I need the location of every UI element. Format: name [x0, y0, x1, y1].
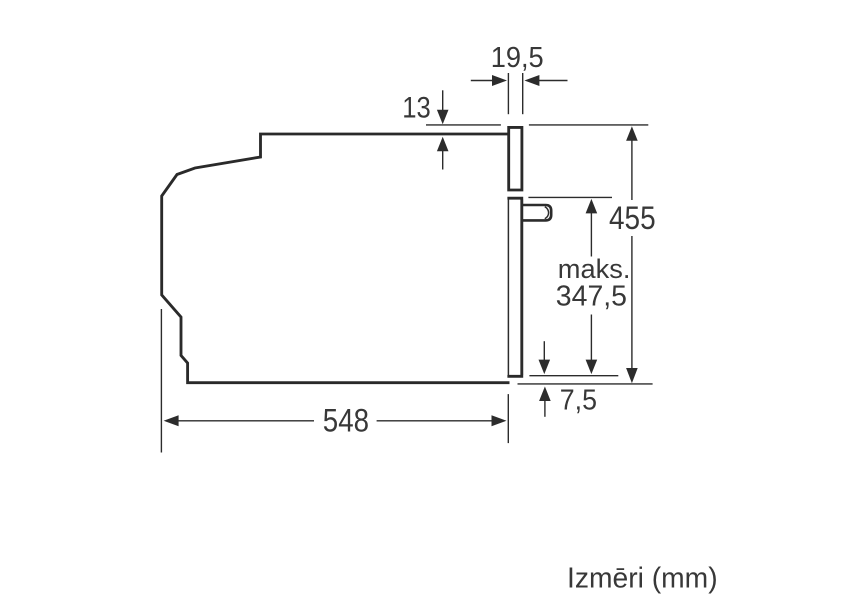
- extension line at panel top (right of panel, top ref of 455): [529, 124, 648, 126]
- dim maks: top extension line (door top level): [528, 196, 612, 198]
- door right edge: [520, 200, 523, 376]
- oven body outline: [162, 134, 510, 383]
- door top edge: [507, 197, 523, 200]
- svg-text:7,5: 7,5: [560, 385, 597, 417]
- dim 19,5: left extension line: [507, 73, 509, 114]
- svg-text:548: 548: [323, 402, 369, 438]
- dim 548: left arrow: [164, 415, 179, 426]
- dim 455: top (up) arrow: [626, 126, 638, 141]
- door bottom edge: [507, 375, 523, 378]
- control panel (front upper section): [509, 127, 522, 190]
- extension line at panel top (left of panel): [426, 124, 501, 126]
- svg-text:455: 455: [609, 200, 656, 236]
- dim 13: lower (up) arrow: [442, 150, 444, 170]
- dim 548: left extension line: [160, 309, 162, 453]
- svg-text:347,5: 347,5: [556, 281, 627, 313]
- dim 455: bottom (down) arrow: [626, 368, 638, 383]
- dim 455: line below label: [631, 236, 633, 369]
- dim 548: right extension line: [507, 394, 509, 443]
- svg-text:19,5: 19,5: [491, 42, 544, 74]
- svg-text:Izmēri (mm): Izmēri (mm): [567, 563, 718, 595]
- svg-text:maks.: maks.: [558, 254, 631, 284]
- dim 455: bottom extension line: [518, 383, 653, 385]
- dim 19,5: right extension line: [522, 73, 524, 114]
- svg-text:13: 13: [402, 92, 431, 125]
- door left (thin) edge: [507, 200, 509, 376]
- dim 19,5: right arrow: [538, 80, 568, 82]
- dim maks: top (up) arrow: [586, 199, 598, 214]
- door handle: [522, 205, 551, 220]
- dim 7,5: upper (down) arrow: [543, 341, 545, 361]
- dim maks: bottom (down) arrow: [590, 315, 592, 361]
- dim 548: right arrow: [377, 420, 493, 422]
- dim maks: bottom extension line (door bottom level): [529, 375, 618, 377]
- dim 19,5: left arrow: [471, 80, 494, 82]
- dim 7,5: lower (up) arrow: [539, 387, 551, 402]
- handle inner arc: [545, 207, 549, 219]
- dim 13: upper (down) arrow: [442, 90, 444, 111]
